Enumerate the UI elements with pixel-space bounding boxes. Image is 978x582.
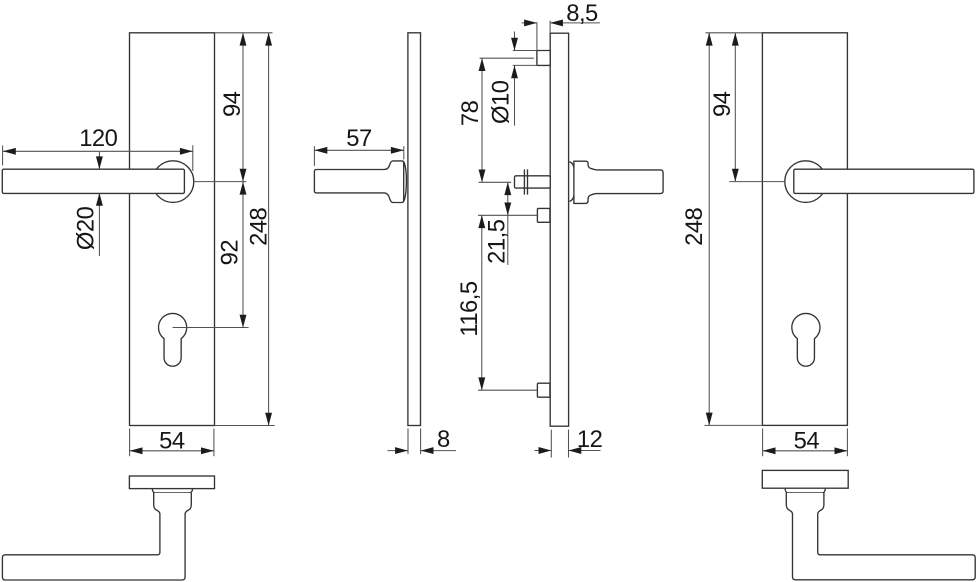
dim 21,5	[507, 182, 509, 265]
svg-text:94: 94	[709, 91, 736, 117]
dim 94 right	[734, 33, 736, 182]
left lever bar	[2, 169, 184, 193]
dim 57	[315, 149, 404, 151]
svg-text:94: 94	[219, 91, 246, 117]
leader spindle center	[479, 181, 512, 183]
svg-text:Ø10: Ø10	[487, 80, 514, 124]
dim 57 extension lines	[313, 146, 315, 166]
dim 12 extension lines	[550, 430, 552, 458]
top screw	[537, 51, 550, 66]
side backplate	[408, 33, 421, 426]
svg-text:57: 57	[346, 125, 372, 152]
plan disc left	[129, 476, 214, 489]
svg-text:116,5: 116,5	[456, 281, 483, 337]
top extension left view	[215, 32, 273, 34]
leader middle screw	[478, 214, 537, 216]
svg-text:54: 54	[794, 428, 820, 455]
side rose bulge	[404, 162, 407, 201]
dim Ø20	[98, 152, 100, 169]
dim 120	[3, 150, 193, 152]
plan disc right	[762, 470, 848, 488]
leader left keyhole	[173, 327, 249, 329]
section rose bulge	[570, 162, 575, 168]
bottom screw	[537, 383, 550, 397]
top screw extensions	[513, 50, 537, 52]
left keyhole	[159, 313, 187, 366]
leader bottom screw	[478, 389, 537, 391]
leader left rose	[194, 181, 247, 183]
side lever profile	[314, 161, 403, 203]
middle screw	[537, 208, 550, 222]
dim 8 extension lines	[407, 428, 409, 454]
bottom extension left view	[215, 425, 275, 427]
dim Ø10	[514, 32, 516, 51]
svg-text:248: 248	[246, 207, 273, 245]
svg-text:54: 54	[159, 428, 185, 455]
dim 248 left	[268, 33, 270, 426]
section backplate	[550, 33, 568, 426]
dim 78	[481, 58, 483, 182]
right rose	[785, 161, 827, 203]
svg-text:248: 248	[681, 207, 708, 245]
plan stem and bar right	[786, 493, 975, 580]
svg-text:21,5: 21,5	[484, 219, 511, 264]
dim 94 left	[242, 33, 244, 182]
dim 120 extension lines	[2, 146, 4, 166]
svg-text:120: 120	[79, 125, 117, 152]
dim 248 right	[708, 33, 710, 426]
dim 12	[535, 450, 552, 452]
right lever bar	[794, 169, 974, 193]
svg-text:12: 12	[577, 426, 603, 453]
dim 8	[387, 450, 408, 452]
dim 92	[242, 182, 244, 328]
spindle washer	[523, 169, 525, 194]
dim 8,5	[522, 22, 537, 24]
left backplate	[130, 33, 215, 426]
dim 54 left extension lines	[129, 429, 131, 457]
dim 54 right extension lines	[762, 428, 764, 456]
svg-text:78: 78	[457, 100, 484, 126]
bottom extension right view	[705, 424, 763, 426]
right backplate	[762, 33, 847, 426]
svg-text:8: 8	[437, 426, 450, 453]
plan stem and bar left	[2, 493, 191, 580]
svg-text:8,5: 8,5	[566, 0, 598, 27]
plan ring right	[785, 488, 825, 493]
leader top screw center	[480, 57, 534, 59]
left rose	[152, 161, 194, 203]
dim 54 right	[763, 450, 848, 452]
spindle	[515, 176, 551, 188]
svg-text:Ø20: Ø20	[73, 206, 100, 250]
top extension right view	[706, 32, 763, 34]
svg-text:92: 92	[217, 240, 244, 266]
section lever	[574, 161, 663, 203]
dim 116,5	[481, 215, 483, 390]
plan ring left	[152, 489, 192, 493]
dim 54 left	[130, 450, 214, 452]
right keyhole	[792, 313, 820, 366]
leader right rose	[729, 181, 785, 183]
